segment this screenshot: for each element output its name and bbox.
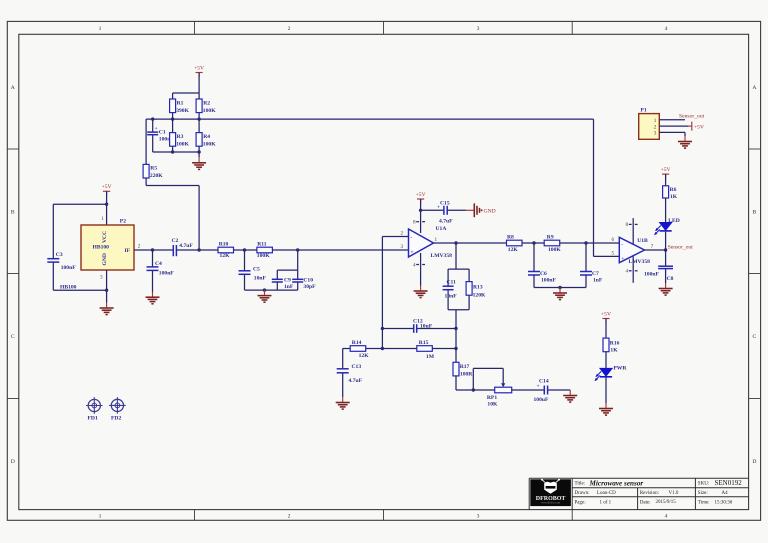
svg-text:LED: LED [668, 218, 680, 224]
svg-text:C11: C11 [447, 279, 457, 285]
svg-text:Size:: Size: [698, 491, 708, 496]
op-amp U1B [612, 218, 654, 283]
svg-text:R17: R17 [460, 364, 470, 370]
svg-text:5: 5 [612, 251, 615, 257]
ground below C8 [659, 283, 673, 295]
resistor R11 [257, 241, 273, 259]
fiducial FD2 [109, 397, 126, 421]
+5V R6 [661, 167, 671, 179]
GND power port near C15 [448, 203, 496, 217]
resistor R17 [453, 349, 473, 391]
svg-text:4.7uF: 4.7uF [349, 378, 363, 384]
wire R11 to U1A pin3 [272, 249, 408, 251]
svg-text:A: A [11, 85, 15, 91]
svg-text:-: - [410, 235, 412, 241]
wire C6 C7 bottom rail [534, 287, 586, 289]
wire bias bottom rail [153, 151, 199, 153]
svg-text:C9: C9 [284, 277, 291, 283]
svg-text:12K: 12K [508, 247, 519, 253]
svg-text:6: 6 [612, 237, 615, 243]
fiducial FD1 [86, 397, 103, 421]
svg-text:1: 1 [99, 26, 102, 32]
svg-text:-: - [621, 242, 623, 248]
wire +5V to bias split [198, 73, 200, 94]
svg-text:+: + [437, 205, 440, 211]
svg-text:1K: 1K [610, 347, 618, 353]
svg-text:4.7uF: 4.7uF [439, 219, 453, 225]
capacitor C14 [534, 378, 571, 403]
svg-text:220K: 220K [150, 173, 163, 179]
svg-text:2015/9/15: 2015/9/15 [656, 500, 677, 505]
DFRobot logo [530, 479, 571, 506]
ground below R4 [192, 152, 206, 169]
svg-text:1K: 1K [670, 194, 678, 200]
resistor R1 [170, 93, 190, 119]
svg-text:100K: 100K [203, 108, 216, 114]
svg-text:C3: C3 [56, 252, 63, 258]
svg-text:R2: R2 [203, 100, 210, 106]
wire R10 to R11 [234, 249, 257, 251]
svg-text:+: + [621, 256, 624, 262]
+5V U1A [416, 192, 426, 204]
svg-text:+5V: +5V [694, 124, 704, 130]
capacitor C10 [292, 270, 316, 290]
svg-text:LMV358: LMV358 [629, 259, 651, 265]
svg-text:3: 3 [100, 275, 103, 281]
svg-text:R8: R8 [507, 235, 514, 241]
svg-text:FD1: FD1 [88, 416, 98, 422]
svg-text:Microwave sensor: Microwave sensor [589, 479, 644, 487]
LED PWR [595, 366, 628, 404]
U1A pin2 feedback column [381, 237, 383, 349]
resistor R5 [143, 119, 163, 185]
svg-text:8: 8 [413, 220, 416, 226]
svg-text:+: + [537, 384, 540, 390]
svg-text:10nF: 10nF [254, 275, 267, 281]
wire R8 to R9 [522, 242, 544, 244]
svg-text:100nF: 100nF [61, 265, 77, 271]
resistor R13 [466, 269, 486, 310]
svg-text:100K: 100K [257, 253, 270, 259]
P1 pin2 wire +5V [659, 125, 688, 127]
svg-text:R4: R4 [203, 134, 210, 140]
wire C11/R13 bottom to feedback column [448, 309, 469, 311]
svg-text:Date:: Date: [640, 500, 651, 505]
svg-text:1: 1 [654, 118, 657, 124]
svg-text:R3: R3 [177, 134, 184, 140]
svg-text:R6: R6 [670, 187, 677, 193]
+5V supply top bias [194, 65, 204, 77]
svg-text:2: 2 [138, 244, 141, 250]
svg-text:3: 3 [401, 244, 404, 250]
svg-text:C: C [11, 334, 15, 340]
svg-text:R15: R15 [419, 340, 429, 346]
svg-text:A: A [752, 85, 756, 91]
wire R5 to signal rail [146, 185, 199, 187]
svg-text:D: D [11, 459, 15, 465]
svg-text:100nF: 100nF [541, 278, 557, 284]
op-amp U1A [409, 220, 453, 286]
svg-text:www.dfrobot.com: www.dfrobot.com [541, 502, 560, 505]
HB100 gnd pin wire [106, 270, 108, 303]
svg-text:100nF: 100nF [644, 271, 660, 277]
+5V PWR chain [601, 311, 611, 323]
svg-text:VCC: VCC [102, 231, 108, 243]
svg-text:SEN0192: SEN0192 [715, 479, 743, 487]
svg-text:12K: 12K [220, 253, 231, 259]
ground below C4 [146, 292, 160, 304]
svg-text:U1A: U1A [436, 226, 447, 232]
ground below C13 [336, 397, 350, 409]
svg-text:4: 4 [665, 514, 668, 520]
svg-text:7: 7 [651, 244, 654, 250]
svg-text:100uF: 100uF [534, 397, 550, 403]
svg-text:1: 1 [101, 216, 104, 222]
title block [529, 478, 748, 509]
svg-text:R9: R9 [547, 235, 554, 241]
svg-text:1: 1 [99, 514, 102, 520]
svg-text:1nF: 1nF [284, 284, 294, 290]
potentiometer RP1 [456, 368, 544, 407]
svg-text:Sensor_out: Sensor_out [668, 245, 694, 251]
svg-text:C15: C15 [440, 200, 450, 206]
svg-text:4.7uF: 4.7uF [179, 243, 193, 249]
svg-text:4: 4 [626, 269, 629, 275]
svg-text:Drawn:: Drawn: [575, 491, 590, 496]
svg-text:8: 8 [626, 222, 629, 228]
U1A pin2 wire [382, 236, 408, 238]
svg-text:1nF: 1nF [593, 278, 603, 284]
svg-text:C2: C2 [172, 238, 179, 244]
svg-text:C6: C6 [540, 271, 547, 277]
svg-text:Loan-CD: Loan-CD [597, 491, 616, 496]
resistor R3 [170, 119, 190, 152]
svg-text:R1: R1 [177, 100, 184, 106]
resistor R10 [218, 241, 234, 259]
capacitor C5 [239, 248, 267, 290]
svg-text:4: 4 [413, 262, 416, 268]
capacitor C7 [580, 241, 603, 287]
svg-text:+: + [410, 250, 413, 256]
svg-text:C14: C14 [539, 378, 549, 384]
svg-text:R14: R14 [352, 340, 362, 346]
svg-text:R11: R11 [257, 241, 267, 247]
svg-text:2: 2 [654, 124, 657, 130]
svg-text:IF: IF [125, 248, 131, 254]
svg-text:Sensor_out: Sensor_out [679, 114, 705, 120]
svg-text:P2: P2 [120, 219, 126, 225]
capacitor C13 [337, 349, 363, 398]
wire feedback to U1B pin5 [593, 119, 595, 256]
ground below C6 C7 [553, 288, 567, 300]
wire R9 to U1B pin6 [560, 242, 620, 244]
svg-text:Revision:: Revision: [640, 491, 659, 496]
P1 pin3 wire to ground [659, 131, 685, 133]
svg-text:C7: C7 [592, 271, 599, 277]
wire filter bottom rail [245, 289, 298, 291]
svg-text:U1B: U1B [637, 238, 648, 244]
wire IF pin to C2 [134, 249, 173, 251]
svg-text:C1: C1 [159, 130, 166, 136]
svg-text:10nF: 10nF [445, 293, 458, 299]
svg-text:PWR: PWR [613, 366, 627, 372]
svg-text:R16: R16 [610, 340, 620, 346]
svg-text:R5: R5 [150, 166, 157, 172]
svg-text:390K: 390K [176, 108, 189, 114]
capacitor C6 [528, 241, 557, 287]
svg-text:C: C [753, 334, 757, 340]
ground below HB100 [100, 303, 114, 315]
svg-text:2: 2 [401, 231, 404, 237]
P1 pin1 wire Sensor_out [659, 119, 685, 121]
svg-text:30pF: 30pF [303, 284, 316, 290]
capacitor C15 [419, 200, 453, 224]
resistor R9 [544, 235, 561, 253]
svg-text:2: 2 [288, 514, 291, 520]
ground right of C14 [563, 390, 577, 402]
svg-text:B: B [11, 210, 15, 216]
svg-text:2: 2 [288, 26, 291, 32]
svg-text:P1: P1 [641, 108, 647, 114]
resistor R8 [507, 235, 523, 253]
resistor R4 [196, 119, 216, 152]
svg-text:C8: C8 [667, 276, 674, 282]
wire bias mid rail to U1B pin5 [146, 118, 593, 120]
resistor R2 [196, 93, 216, 119]
resistor R14 [343, 340, 383, 359]
svg-text:100nF: 100nF [159, 271, 175, 277]
svg-text:4: 4 [665, 26, 668, 32]
ground filter [258, 290, 272, 302]
svg-text:C13: C13 [352, 364, 362, 370]
svg-text:GND: GND [102, 253, 108, 265]
connector P1 [639, 108, 660, 140]
svg-text:3: 3 [477, 26, 480, 32]
capacitor C2 [172, 238, 194, 256]
ground U1A pin4 [414, 286, 428, 298]
HB100 module P2 [60, 216, 141, 291]
svg-text:100K: 100K [176, 141, 189, 147]
svg-text:120K: 120K [473, 293, 486, 299]
ground below PWR LED [599, 403, 613, 415]
svg-text:C4: C4 [155, 261, 162, 267]
svg-text:FD2: FD2 [111, 415, 121, 421]
capacitor C8 [644, 250, 674, 283]
resistor R6 [663, 174, 678, 222]
svg-text:RP1: RP1 [487, 395, 497, 401]
U1A output wire [434, 242, 507, 244]
svg-text:1 of 1: 1 of 1 [600, 500, 612, 505]
svg-text:R10: R10 [219, 241, 229, 247]
svg-text:LMV358: LMV358 [431, 253, 453, 259]
svg-text:Page:: Page: [575, 500, 586, 505]
svg-text:1: 1 [435, 237, 438, 243]
capacitor C12 [382, 318, 456, 333]
capacitor C4 [147, 248, 175, 292]
svg-text:Title:: Title: [575, 482, 586, 487]
svg-text:GND: GND [484, 208, 496, 214]
svg-text:+: + [155, 126, 158, 132]
resistor R15 [382, 340, 456, 360]
svg-text:100K: 100K [203, 141, 216, 147]
capacitor C3 [47, 204, 106, 290]
svg-text:D: D [752, 459, 756, 465]
svg-text:1M: 1M [426, 354, 435, 360]
wire C2 to R10 [177, 249, 218, 251]
capacitor C11 / resistor R13 parallel [443, 243, 470, 310]
svg-text:10uF: 10uF [420, 323, 433, 329]
svg-text:B: B [753, 210, 757, 216]
+5V HB100 [102, 184, 112, 196]
svg-text:15:30:36: 15:30:36 [715, 500, 733, 505]
svg-text:12K: 12K [359, 353, 370, 359]
svg-text:3: 3 [477, 514, 480, 520]
capacitor C1 [147, 119, 174, 152]
svg-text:100K: 100K [548, 247, 561, 253]
svg-text:C10: C10 [303, 277, 313, 283]
capacitor C9 and C10 network [272, 250, 298, 290]
svg-text:C5: C5 [253, 266, 260, 272]
svg-text:Time:: Time: [698, 500, 710, 505]
svg-text:3: 3 [654, 131, 657, 137]
svg-text:A4: A4 [722, 491, 729, 496]
svg-text:SKU:: SKU: [698, 482, 709, 487]
LED indicator [654, 218, 680, 250]
svg-text:10K: 10K [487, 401, 498, 407]
svg-text:HB100: HB100 [93, 245, 110, 251]
resistor R16 [603, 319, 620, 369]
svg-text:V1.0: V1.0 [669, 491, 679, 496]
svg-text:180R: 180R [460, 372, 473, 378]
svg-text:R13: R13 [473, 285, 483, 291]
U1B output wire [645, 249, 666, 251]
